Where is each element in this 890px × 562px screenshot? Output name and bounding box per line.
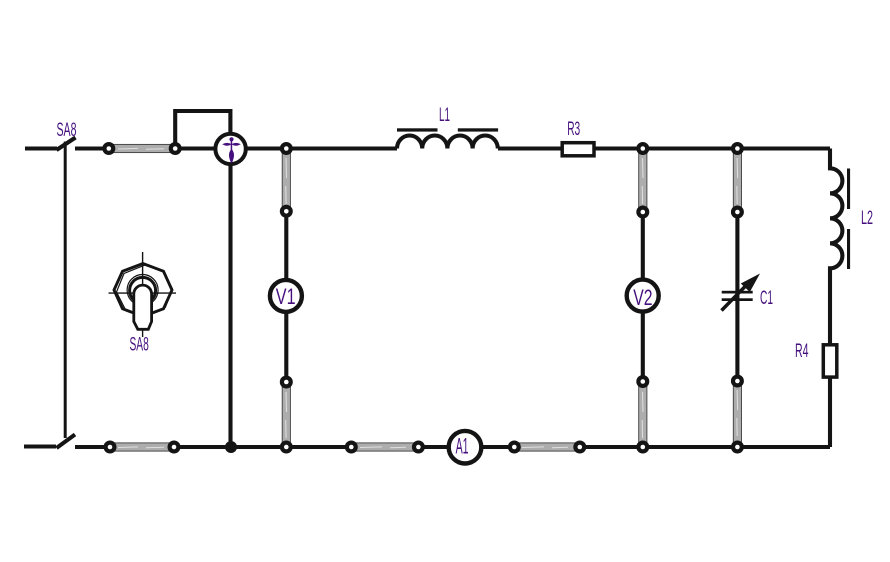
- svg-text:R3: R3: [567, 119, 580, 140]
- svg-text:SA8: SA8: [57, 120, 77, 141]
- svg-text:V1: V1: [276, 284, 296, 309]
- svg-text:V2: V2: [633, 285, 652, 310]
- svg-text:SA8: SA8: [130, 334, 149, 355]
- svg-text:C1: C1: [760, 288, 773, 309]
- svg-text:L2: L2: [861, 208, 873, 229]
- svg-text:A1: A1: [456, 434, 469, 459]
- svg-text:L1: L1: [439, 105, 450, 126]
- svg-text:R4: R4: [795, 341, 809, 362]
